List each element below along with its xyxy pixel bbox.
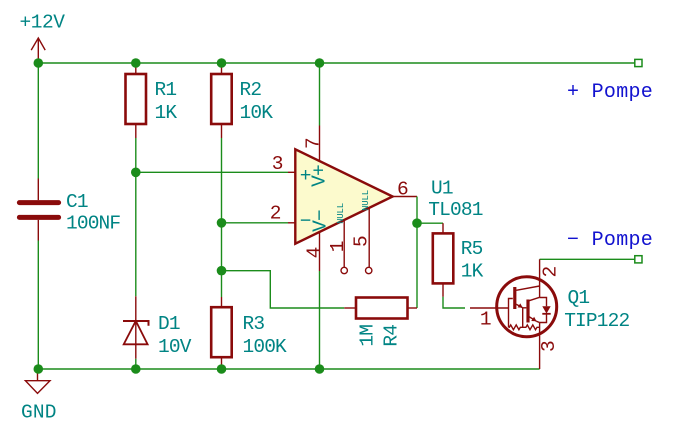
Q1 internal diode: [540, 298, 551, 323]
node D output: [412, 218, 422, 228]
svg-text:1K: 1K: [155, 102, 178, 124]
svg-text:3: 3: [538, 341, 560, 352]
svg-text:7: 7: [303, 138, 325, 149]
op-amp U1 body: [295, 149, 392, 243]
svg-text:2: 2: [539, 266, 561, 277]
terminal square - Pompe: [635, 256, 642, 263]
svg-text:100NF: 100NF: [66, 212, 120, 234]
pin 1 open circle: [341, 267, 347, 273]
wire pin7 supply: [319, 63, 321, 126]
power flag +12V: [31, 38, 45, 63]
svg-text:100K: 100K: [243, 336, 288, 358]
svg-text:NULL: NULL: [361, 190, 371, 211]
terminal square + Pompe: [635, 59, 642, 66]
ground symbol: [25, 369, 50, 393]
Q1 T1 emitter: [516, 303, 523, 307]
wire node D to R5: [417, 222, 443, 224]
node R1 top: [131, 58, 141, 68]
svg-text:C1: C1: [66, 191, 88, 213]
node R3 bottom: [217, 364, 227, 374]
Q1 internal resistors zigzag rail: [509, 325, 540, 330]
svg-text:TL081: TL081: [428, 199, 482, 221]
svg-text:+12V: +12V: [20, 12, 66, 34]
node B pin2: [217, 218, 227, 228]
svg-text:R5: R5: [461, 238, 483, 260]
svg-text:− Pompe: − Pompe: [567, 229, 653, 252]
wire output column: [416, 197, 418, 309]
Q1 T2 emitter: [529, 317, 540, 323]
zener diode D1: [123, 296, 149, 359]
wire pin4 to bottom rail: [319, 271, 321, 369]
pin 5 open circle: [366, 267, 372, 273]
resistor R3: [211, 297, 232, 369]
wire R2 to R3 column: [221, 138, 223, 297]
op-amp pin 1 null: [343, 221, 345, 267]
svg-text:GND: GND: [21, 402, 57, 424]
svg-text:+ Pompe: + Pompe: [567, 81, 653, 104]
op-amp pin 6 output: [393, 196, 417, 198]
svg-text:U1: U1: [431, 177, 453, 199]
op-amp pin 2: [288, 222, 295, 224]
svg-text:D1: D1: [158, 313, 180, 335]
wire left column upper: [37, 63, 39, 179]
op-amp pin 4: [319, 232, 321, 271]
wire bottom rail: [38, 368, 539, 370]
svg-text:5: 5: [351, 236, 373, 247]
resistor R2: [211, 63, 232, 138]
wire node A to pin3: [136, 171, 288, 173]
svg-text:4: 4: [303, 247, 325, 258]
wire feedback from node C to R4: [222, 271, 345, 308]
node A R1 bottom: [131, 168, 141, 178]
Q1 transistor T2 base bar: [526, 300, 529, 323]
svg-text:V−: V−: [309, 210, 331, 232]
node R2 top: [217, 58, 227, 68]
Q1 T1 emitter to T2 base: [523, 308, 527, 328]
wire R5 to base: [443, 297, 465, 308]
Q1 transistor T1 base bar: [513, 287, 516, 309]
svg-text:R2: R2: [240, 79, 262, 101]
svg-text:R1: R1: [155, 79, 177, 101]
node GND left: [34, 364, 44, 374]
Q1 internal base network: [509, 299, 513, 328]
wire D1 to bottom rail: [135, 359, 137, 369]
svg-text:R4: R4: [381, 325, 403, 347]
svg-text:NULL: NULL: [336, 203, 346, 224]
resistor R1: [126, 63, 147, 138]
svg-text:Q1: Q1: [568, 287, 590, 309]
capacitor C1: [19, 179, 58, 241]
svg-text:2: 2: [270, 203, 281, 225]
svg-text:1: 1: [327, 241, 349, 252]
node C R3 top: [217, 266, 227, 276]
op-amp pin 7: [319, 126, 321, 163]
svg-text:TIP122: TIP122: [564, 310, 629, 332]
svg-text:10K: 10K: [240, 102, 274, 124]
wire left column lower: [37, 241, 39, 370]
wire R1 to D1 column: [135, 138, 137, 296]
svg-text:6: 6: [397, 179, 408, 201]
resistor R4: [344, 298, 417, 319]
svg-text:3: 3: [272, 153, 283, 175]
node pin7 top: [315, 58, 325, 68]
op-amp pin 5 null: [368, 209, 370, 268]
Q1 collector pin 2: [539, 259, 541, 297]
resistor R5: [433, 223, 454, 297]
node D1 bottom: [131, 364, 141, 374]
wire collector to - Pompe: [540, 258, 635, 260]
svg-text:1K: 1K: [461, 260, 484, 282]
Q1 emitter pin 3: [539, 323, 541, 370]
svg-text:1M: 1M: [357, 325, 379, 347]
node top-left: [34, 58, 44, 68]
Q1 T2 collector: [529, 297, 540, 301]
svg-text:1: 1: [480, 309, 491, 331]
node pin4 bottom: [315, 364, 325, 374]
wire top rail: [38, 62, 635, 64]
op-amp pin 3: [288, 171, 295, 173]
Q1 base pin 1: [470, 307, 509, 309]
wire node B to pin2: [222, 222, 289, 224]
svg-text:V+: V+: [309, 165, 331, 187]
transistor Q1 body circle: [497, 277, 557, 337]
Q1 T1 collector: [516, 286, 539, 290]
svg-text:10V: 10V: [158, 336, 192, 358]
svg-text:R3: R3: [243, 313, 265, 335]
